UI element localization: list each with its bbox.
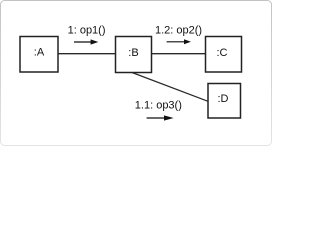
svg-text::B: :B [128,47,138,59]
svg-text:1.2: op2(): 1.2: op2() [155,25,202,37]
svg-text::C: :C [217,47,228,59]
svg-text::A: :A [34,47,45,59]
svg-text:1.1: op3(): 1.1: op3() [135,99,182,111]
svg-text::D: :D [218,93,229,105]
svg-text:1: op1(): 1: op1() [68,25,106,37]
